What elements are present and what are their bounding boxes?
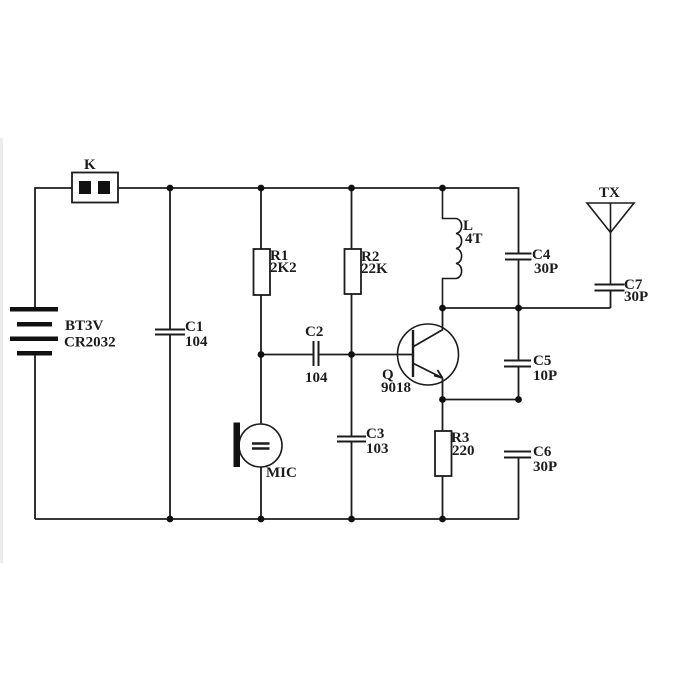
svg-text:C1: C1	[185, 319, 203, 335]
junction node emitter rail C5	[515, 396, 522, 403]
capacitor C1	[155, 188, 208, 519]
svg-text:104: 104	[185, 334, 208, 350]
svg-text:C6: C6	[533, 444, 552, 460]
capacitor C5	[504, 308, 557, 400]
wire top rail left of switch	[35, 188, 72, 307]
capacitor C2	[261, 324, 412, 386]
resistor R2	[345, 188, 389, 436]
capacitor C4	[505, 247, 558, 308]
wire top rail right of switch	[118, 188, 519, 253]
junction node mid rail C4	[515, 305, 522, 312]
capacitor C7	[595, 277, 649, 308]
junction node bottom rail C3	[348, 516, 355, 523]
wire emitter rail	[443, 399, 519, 401]
junction node top rail L	[439, 185, 446, 192]
battery BT3V CR2032	[10, 307, 116, 356]
wire collector to mid rail	[442, 308, 444, 330]
junction node mid rail L	[439, 305, 446, 312]
svg-text:CR2032: CR2032	[64, 335, 116, 351]
svg-text:220: 220	[452, 443, 475, 459]
microphone MIC	[234, 355, 297, 520]
svg-text:MIC: MIC	[266, 465, 297, 481]
switch K	[72, 157, 118, 203]
capacitor C6	[504, 444, 557, 519]
junction node C2 R2	[348, 351, 355, 358]
capacitor C3	[337, 426, 389, 519]
svg-text:K: K	[84, 157, 96, 173]
svg-text:30P: 30P	[624, 289, 648, 305]
svg-text:C5: C5	[533, 353, 551, 369]
resistor R1	[254, 188, 297, 355]
svg-text:10P: 10P	[533, 368, 557, 384]
junction node bottom rail MIC	[258, 516, 265, 523]
svg-text:2K2: 2K2	[270, 260, 297, 276]
wire emitter down to emitter rail and R3	[442, 378, 444, 431]
svg-text:TX: TX	[599, 185, 620, 201]
svg-text:104: 104	[305, 370, 328, 386]
svg-text:22K: 22K	[361, 261, 388, 277]
svg-text:30P: 30P	[533, 459, 557, 475]
svg-text:30P: 30P	[534, 261, 558, 277]
svg-text:BT3V: BT3V	[65, 318, 104, 334]
svg-text:9018: 9018	[381, 380, 411, 396]
photo edge strip left	[0, 138, 3, 563]
junction node top rail R1	[258, 185, 265, 192]
svg-text:C3: C3	[366, 426, 384, 442]
junction node emitter rail	[439, 396, 446, 403]
junction node top rail C1	[167, 185, 174, 192]
wire mid rail	[443, 307, 611, 309]
junction node bottom rail C1	[167, 516, 174, 523]
transistor Q1 9018	[381, 324, 459, 396]
inductor L 4T	[443, 188, 483, 308]
resistor R3	[435, 430, 475, 519]
svg-text:C2: C2	[305, 324, 323, 340]
junction node bottom rail R3	[439, 516, 446, 523]
svg-text:4T: 4T	[465, 231, 483, 247]
wire bottom rail	[35, 518, 519, 520]
antenna TX	[587, 185, 634, 284]
junction node C2 R1	[258, 351, 265, 358]
svg-text:103: 103	[366, 441, 389, 457]
wire battery bottom to bottom rail	[34, 356, 36, 520]
junction node top rail R2	[348, 185, 355, 192]
